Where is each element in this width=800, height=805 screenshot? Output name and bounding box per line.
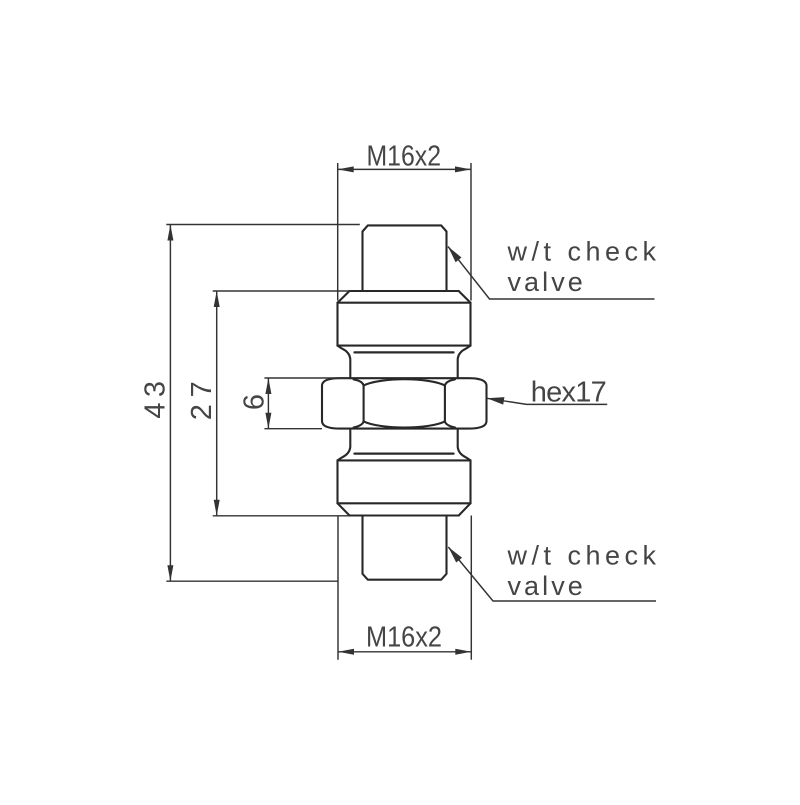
upper flange left side xyxy=(336,303,338,346)
dim 27: top extension line xyxy=(213,290,351,292)
upper flange chamfer transition line xyxy=(338,302,471,304)
svg-text:w/t check: w/t check xyxy=(507,237,657,267)
leader line lower check valve xyxy=(448,547,656,601)
upper flange bottom edge xyxy=(338,345,471,347)
arrowhead 27 bottom xyxy=(214,500,220,516)
upper neck left profile xyxy=(338,346,351,379)
svg-text:43: 43 xyxy=(140,381,172,419)
svg-text:6: 6 xyxy=(239,394,271,410)
lower neck undercut line xyxy=(355,452,454,454)
dim M16x2 bottom: dimension line xyxy=(338,651,471,653)
lower flange right chamfer xyxy=(459,503,471,515)
upper flange right chamfer xyxy=(459,291,471,303)
arrowhead leader hex17 xyxy=(487,397,504,405)
leader line upper check valve xyxy=(448,247,655,300)
lower flange bottom edge xyxy=(350,514,459,516)
lower neck right profile xyxy=(458,429,471,461)
arrowhead leader upper check valve xyxy=(448,247,462,263)
upper flange left chamfer xyxy=(338,291,350,303)
dim M16x2 bottom: left extension line xyxy=(337,516,339,660)
svg-text:hex17: hex17 xyxy=(531,377,607,409)
hex body silhouette xyxy=(322,378,487,428)
upper flange top edge xyxy=(350,290,459,292)
dim 27: dimension line xyxy=(216,291,218,516)
upper flange right side xyxy=(469,303,471,346)
bottom stud (M16x2 threaded end, lower) xyxy=(363,516,447,580)
leader line hex17 xyxy=(487,398,607,404)
dim M16x2 top: right extension line xyxy=(470,163,472,301)
arrowhead 27 top xyxy=(214,291,220,307)
dim M16x2 bottom: right extension line xyxy=(470,516,472,660)
svg-text:M16x2: M16x2 xyxy=(367,140,442,172)
dim 43: dimension line xyxy=(169,225,171,582)
upper neck undercut line xyxy=(355,351,454,353)
arrowhead M16x2 bottom left xyxy=(338,649,354,655)
dim M16x2 top: left extension line xyxy=(337,163,339,301)
svg-text:valve: valve xyxy=(508,267,583,297)
dim 27: bottom extension line xyxy=(213,515,349,517)
arrowhead M16x2 top left xyxy=(338,166,354,172)
hex right face corner arc bottom xyxy=(445,421,455,427)
lower flange chamfer transition line xyxy=(338,502,471,504)
arrowhead M16x2 bottom right xyxy=(455,649,471,655)
dim 43: top extension line xyxy=(166,224,359,226)
dim 43: bottom extension line xyxy=(166,580,338,582)
svg-text:M16x2: M16x2 xyxy=(366,621,442,653)
hex right face corner arc top xyxy=(445,379,455,385)
hex left divider xyxy=(363,385,365,421)
arrowhead 43 top xyxy=(167,225,173,241)
hex left face corner arc top xyxy=(354,379,364,385)
lower neck left profile xyxy=(338,429,351,461)
lower flange left chamfer xyxy=(338,503,350,515)
dim M16x2 top: dimension line xyxy=(338,168,471,170)
arrowhead leader lower check valve xyxy=(448,547,462,563)
arrowhead 6 top xyxy=(265,378,271,394)
arrowhead M16x2 top right xyxy=(455,166,471,172)
arrowhead 6 bottom xyxy=(265,413,271,429)
hex left face corner arc bottom xyxy=(354,421,364,427)
lower flange right side xyxy=(469,460,471,503)
hex center face top arc xyxy=(364,379,445,385)
dim 6: bottom extension line xyxy=(264,428,322,430)
hex center face bottom arc xyxy=(364,421,445,427)
hex right divider xyxy=(444,385,446,421)
svg-text:w/t check: w/t check xyxy=(507,541,657,571)
dim 6: dimension line xyxy=(267,378,269,429)
upper neck right profile xyxy=(458,346,471,379)
lower flange left side xyxy=(336,460,338,503)
lower flange top edge xyxy=(338,459,471,461)
svg-text:27: 27 xyxy=(186,381,218,420)
top stud (M16x2 threaded end, upper) xyxy=(363,225,447,291)
arrowhead 43 bottom xyxy=(167,565,173,581)
svg-text:valve: valve xyxy=(508,571,583,601)
dim 6: top extension line xyxy=(264,377,349,379)
